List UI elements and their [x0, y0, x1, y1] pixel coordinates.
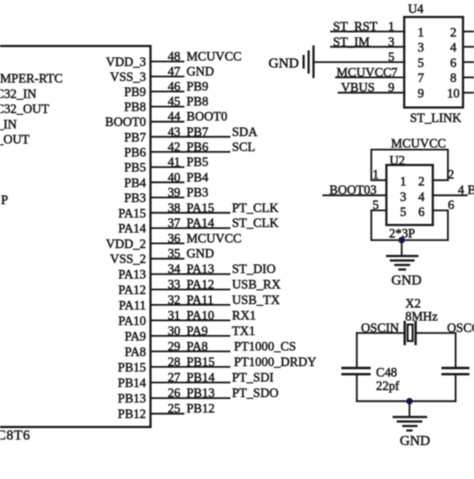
svg-text:SDA: SDA — [232, 125, 258, 139]
svg-text:8: 8 — [450, 71, 456, 85]
svg-text:MCUVCC: MCUVCC — [337, 65, 392, 79]
U1 pin 38 (PA15) — [118, 201, 279, 221]
svg-text:7: 7 — [418, 71, 424, 85]
svg-text:PB3: PB3 — [124, 191, 146, 205]
connector U2 2*3P body — [386, 165, 432, 225]
U1 pin 36 (VDD_2) — [106, 231, 242, 251]
svg-text:22pf: 22pf — [376, 379, 400, 393]
U1 pin 44 (BOOT0) — [105, 110, 227, 130]
U1 pin 47 (VSS_3) — [110, 65, 214, 85]
svg-text:TX1: TX1 — [232, 324, 255, 338]
wire BOOT0 to U2 pin 3 — [323, 194, 386, 196]
svg-text:PB6: PB6 — [124, 145, 146, 159]
wire junction to GND symbol — [401, 240, 403, 256]
svg-text:ST_DIO: ST_DIO — [232, 262, 276, 276]
wire GND to U4 pin 5 — [314, 61, 405, 63]
svg-text:PT_CLK: PT_CLK — [232, 201, 279, 215]
U1 pin 41 (PB5) — [124, 155, 208, 175]
capacitor C48 (left) — [343, 368, 370, 374]
svg-text:PT1000_CS: PT1000_CS — [234, 339, 296, 353]
wire VBUS to U4 pin 9 — [339, 92, 405, 94]
U1 pin 45 (PB8) — [124, 95, 208, 115]
svg-text:PB5: PB5 — [124, 161, 146, 175]
wire pin 26 — [151, 397, 230, 399]
wire pin 41 — [151, 166, 184, 168]
svg-text:PA13: PA13 — [187, 262, 215, 276]
svg-text:PB12: PB12 — [118, 407, 146, 421]
svg-text:PB14: PB14 — [118, 376, 147, 390]
svg-text:C32_OUT: C32_OUT — [0, 102, 49, 116]
wire right capacitor to bottom rail — [455, 374, 457, 401]
svg-text:PB5: PB5 — [187, 155, 209, 169]
svg-text:VDD_2: VDD_2 — [106, 237, 146, 251]
svg-text:VSS_3: VSS_3 — [110, 70, 146, 84]
svg-text:PA10: PA10 — [187, 308, 215, 322]
svg-text:5: 5 — [388, 50, 394, 64]
connector U4 ST_LINK body — [404, 17, 463, 108]
svg-text:2: 2 — [448, 168, 454, 182]
svg-text:BOOT0: BOOT0 — [187, 110, 228, 124]
wire pin 45 — [151, 106, 184, 108]
svg-text:PA9: PA9 — [125, 329, 146, 343]
svg-text:PT_SDI: PT_SDI — [232, 371, 274, 385]
svg-text:5: 5 — [418, 56, 424, 70]
svg-text:PB6: PB6 — [187, 140, 209, 154]
svg-text:PA15: PA15 — [118, 206, 146, 220]
svg-text:PA13: PA13 — [118, 268, 146, 282]
svg-text:ST_LINK: ST_LINK — [410, 111, 462, 125]
wire pin 40 — [151, 181, 184, 183]
svg-text:VSS_2: VSS_2 — [110, 252, 146, 266]
U4 right stub pin 8 wire — [463, 76, 474, 78]
svg-text:3: 3 — [400, 190, 406, 204]
wire pin 34 — [151, 273, 230, 275]
svg-text:BOOT03: BOOT03 — [329, 183, 376, 197]
svg-text:27: 27 — [168, 371, 181, 385]
wire pin 46 — [151, 91, 184, 93]
junction dot below U2 — [398, 237, 405, 244]
svg-text:C32_IN: C32_IN — [0, 87, 36, 101]
svg-text:BOOT1: BOOT1 — [468, 183, 474, 197]
wire right branch down to right capacitor — [455, 333, 457, 368]
wire pin 33 — [151, 289, 230, 291]
svg-text:PA8: PA8 — [125, 345, 146, 359]
wire pin 25 — [151, 413, 184, 415]
svg-text:39: 39 — [168, 186, 181, 200]
svg-text:PA11: PA11 — [119, 298, 146, 312]
svg-text:3: 3 — [388, 35, 394, 49]
svg-text:10: 10 — [447, 87, 460, 101]
U1 pin 28 (PB15) — [118, 355, 317, 375]
svg-text:2: 2 — [418, 175, 424, 189]
svg-text:32: 32 — [168, 293, 181, 307]
svg-text:40: 40 — [168, 170, 181, 184]
svg-text:PB9: PB9 — [187, 80, 209, 94]
svg-text:37: 37 — [168, 216, 181, 230]
svg-text:PA10: PA10 — [118, 314, 146, 328]
svg-text:PA14: PA14 — [118, 222, 146, 236]
crystal X2 symbol — [405, 322, 416, 344]
wire pin 44 — [151, 121, 184, 123]
svg-text:GND: GND — [187, 65, 215, 79]
svg-text:BOOT0: BOOT0 — [105, 115, 146, 129]
svg-text:PB14: PB14 — [187, 371, 216, 385]
svg-text:ST_IM: ST_IM — [333, 35, 370, 49]
svg-text:MCUVCC: MCUVCC — [187, 231, 242, 245]
svg-text:X2: X2 — [405, 297, 421, 311]
svg-text:USB_RX: USB_RX — [232, 278, 281, 292]
svg-text:48: 48 — [168, 50, 181, 64]
svg-text:VBUS: VBUS — [341, 81, 375, 95]
svg-text:GND: GND — [187, 247, 215, 261]
U1 pin 37 (PA14) — [118, 216, 279, 236]
svg-text:PB12: PB12 — [187, 402, 215, 416]
wire OSCOUT segment — [416, 332, 455, 334]
svg-text:6: 6 — [450, 56, 456, 70]
svg-text:6: 6 — [418, 205, 424, 219]
wire pin 48 — [151, 61, 184, 63]
svg-text:PT_SDO: PT_SDO — [232, 386, 279, 400]
ground symbol (rotated) at U4 pin 5 — [304, 47, 314, 78]
wire pin 42 — [151, 151, 230, 153]
svg-text:PB8: PB8 — [187, 95, 209, 109]
svg-text:9: 9 — [418, 87, 424, 101]
svg-text:30: 30 — [168, 324, 181, 338]
svg-text:29: 29 — [168, 339, 181, 353]
svg-text:PT1000_DRDY: PT1000_DRDY — [234, 355, 316, 369]
wire pin 35 — [151, 258, 184, 260]
svg-text:8MHz: 8MHz — [405, 310, 438, 324]
wire junction to GND — [409, 401, 411, 417]
svg-text:PB7: PB7 — [187, 125, 209, 139]
svg-text:PB15: PB15 — [187, 355, 215, 369]
svg-text:7: 7 — [391, 65, 397, 79]
svg-text:1: 1 — [373, 168, 379, 182]
wire pin 38 — [151, 212, 230, 214]
capacitor (right, 22pf) — [443, 368, 469, 374]
svg-text:PB13: PB13 — [187, 386, 215, 400]
U1 pin 35 (VSS_2) — [110, 247, 214, 267]
svg-text:34: 34 — [168, 262, 181, 276]
svg-text:4: 4 — [450, 41, 457, 55]
wire pin 47 — [151, 76, 184, 78]
wire pin 36 — [151, 242, 184, 244]
wire pin 43 — [151, 136, 230, 138]
svg-text:GND: GND — [400, 434, 430, 449]
svg-text:4: 4 — [458, 183, 465, 197]
svg-text:C48: C48 — [376, 366, 397, 380]
svg-text:45: 45 — [168, 95, 181, 109]
svg-text:33: 33 — [168, 278, 181, 292]
svg-text:PB9: PB9 — [124, 85, 146, 99]
wire left branch down to C48 — [356, 333, 358, 368]
svg-text:SCL: SCL — [232, 140, 255, 154]
svg-text:ST_RST: ST_RST — [333, 20, 378, 34]
svg-text:PB4: PB4 — [187, 170, 210, 184]
svg-text:ST_CLK: ST_CLK — [232, 216, 279, 230]
svg-text:PA15: PA15 — [187, 201, 215, 215]
svg-text:U4: U4 — [408, 2, 424, 16]
svg-text:PB7: PB7 — [124, 130, 146, 144]
wire pin 31 — [151, 319, 230, 321]
svg-text:26: 26 — [168, 386, 181, 400]
svg-text:C8T6: C8T6 — [0, 429, 30, 444]
svg-text:PA12: PA12 — [187, 278, 215, 292]
svg-text:MCUVCC: MCUVCC — [187, 50, 242, 64]
U4 right stub pin 10 wire — [463, 92, 474, 94]
junction dot bottom rail — [406, 398, 413, 405]
U1 pin 48 (VDD_3) — [106, 50, 242, 70]
U1 pin 33 (PA12) — [118, 278, 280, 298]
wire pin 30 — [151, 335, 230, 337]
svg-text:47: 47 — [168, 65, 181, 79]
wire U2 pin 4 to BOOT1 — [433, 194, 467, 196]
U1 pin 29 (PA8) — [125, 339, 296, 359]
U1 pin 43 (PB7) — [124, 125, 258, 145]
svg-text:PA8: PA8 — [187, 339, 208, 353]
IC U1 STM32F103C8T6 body — [0, 46, 151, 427]
svg-text:44: 44 — [168, 110, 181, 124]
svg-text:35: 35 — [168, 247, 181, 261]
svg-text:46: 46 — [168, 80, 181, 94]
svg-text:PA14: PA14 — [187, 216, 215, 230]
svg-text:PB8: PB8 — [124, 100, 146, 114]
svg-text:U2: U2 — [390, 154, 406, 168]
wire U2 pins 5,6 to GND rail — [371, 210, 448, 240]
svg-text:3: 3 — [418, 41, 424, 55]
svg-text:PA11: PA11 — [187, 293, 214, 307]
U1 pin 42 (PB6) — [124, 140, 255, 160]
U1 pin 40 (PB4) — [124, 170, 209, 190]
wire OSCIN segment — [357, 332, 404, 334]
svg-text:PA9: PA9 — [187, 324, 208, 338]
svg-text:PA12: PA12 — [118, 283, 146, 297]
svg-text:6: 6 — [448, 198, 454, 212]
svg-text:MCUVCC: MCUVCC — [391, 137, 446, 151]
svg-text:USB_TX: USB_TX — [232, 293, 280, 307]
svg-text:P: P — [1, 193, 8, 207]
svg-text:_IN: _IN — [0, 117, 17, 131]
ground symbol below crystal — [394, 417, 426, 431]
wire pin 37 — [151, 227, 230, 229]
svg-text:PB13: PB13 — [118, 392, 146, 406]
wire ST_RST to U4 pin 1 — [331, 31, 405, 33]
wire bottom rail — [357, 400, 456, 402]
svg-text:PB15: PB15 — [118, 360, 146, 374]
svg-text:_OUT: _OUT — [0, 133, 30, 147]
svg-text:4: 4 — [418, 190, 425, 204]
svg-text:36: 36 — [168, 231, 181, 245]
wire pin 28 — [151, 366, 230, 368]
wire pin 32 — [151, 304, 230, 306]
svg-text:28: 28 — [168, 355, 181, 369]
U1 pin 34 (PA13) — [118, 262, 275, 282]
wire C48 to bottom rail — [356, 374, 358, 401]
svg-text:42: 42 — [168, 140, 181, 154]
U4 right stub pin 6 wire — [463, 61, 474, 63]
ground symbol below U2 — [387, 256, 417, 270]
svg-text:VDD_3: VDD_3 — [106, 55, 146, 69]
svg-text:43: 43 — [168, 125, 181, 139]
wire ST_IM to U4 pin 3 — [331, 46, 405, 48]
U1 pin 26 (PB13) — [118, 386, 279, 406]
U1 pin 32 (PA11) — [119, 293, 280, 313]
U1 pin 25 (PB12) — [118, 402, 215, 422]
U4 right stub pin 4 wire — [463, 46, 474, 48]
wire MCUVCC to U4 pin 7 — [336, 76, 405, 78]
wire pin 27 — [151, 382, 230, 384]
svg-text:9: 9 — [388, 81, 394, 95]
svg-text:MPER-RTC: MPER-RTC — [0, 72, 63, 86]
U1 pin 46 (PB9) — [124, 80, 208, 100]
U4 right stub pin 2 wire — [463, 31, 474, 33]
U1 pin 27 (PB14) — [118, 371, 274, 391]
svg-text:PB3: PB3 — [187, 186, 209, 200]
svg-text:5: 5 — [400, 205, 406, 219]
svg-text:GND: GND — [269, 57, 299, 72]
svg-text:31: 31 — [168, 308, 181, 322]
U1 pin 39 (PB3) — [124, 186, 208, 206]
svg-text:PB4: PB4 — [124, 176, 147, 190]
svg-text:1: 1 — [388, 20, 394, 34]
svg-text:1: 1 — [400, 175, 406, 189]
svg-text:38: 38 — [168, 201, 181, 215]
svg-text:2: 2 — [450, 25, 456, 39]
svg-text:5: 5 — [373, 198, 379, 212]
svg-text:RX1: RX1 — [232, 308, 256, 322]
wire pin 39 — [151, 197, 184, 199]
U1 pin 31 (PA10) — [118, 308, 256, 328]
svg-text:1: 1 — [418, 25, 424, 39]
svg-text:41: 41 — [168, 155, 181, 169]
wire MCUVCC rail to U2 pins 1,2 — [371, 150, 448, 181]
U1 pin 30 (PA9) — [125, 324, 256, 344]
wire pin 29 — [151, 350, 230, 352]
svg-text:25: 25 — [168, 402, 181, 416]
svg-text:GND: GND — [391, 274, 421, 289]
